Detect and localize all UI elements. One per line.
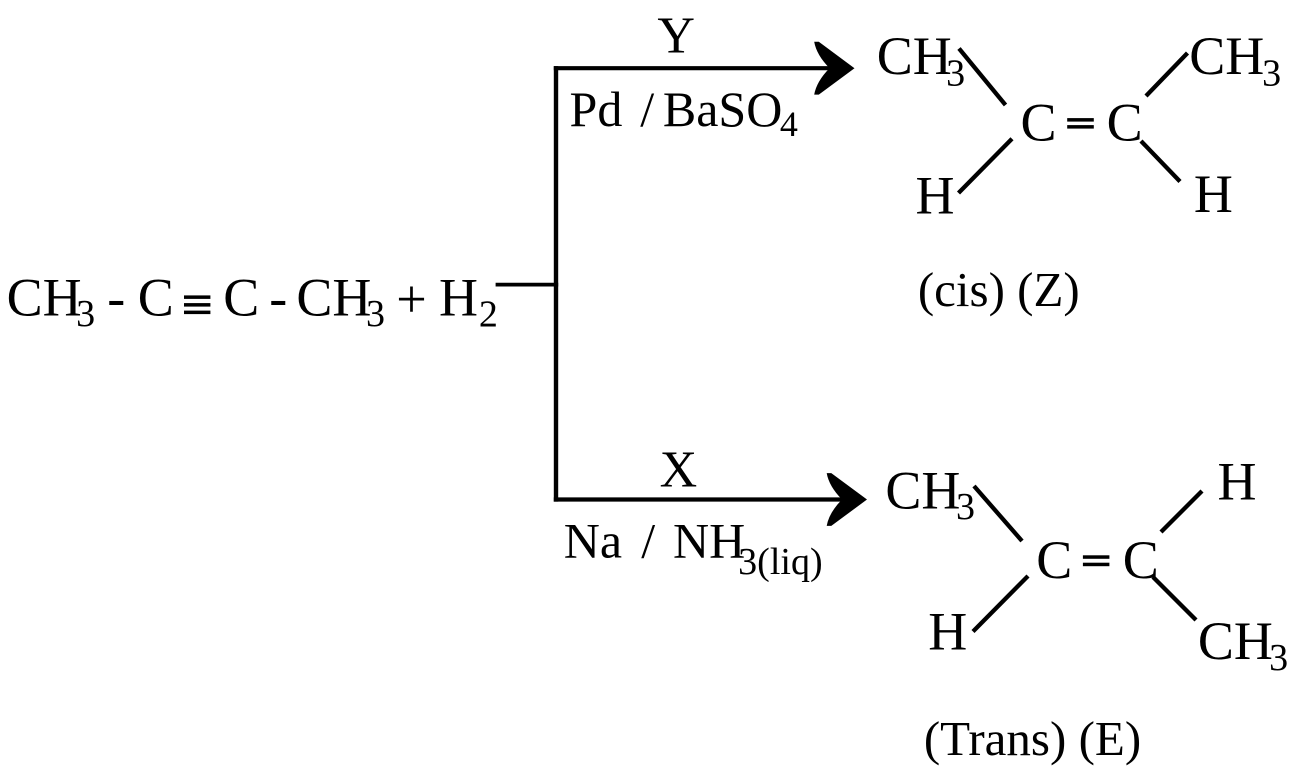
reactant triple bond (three bars) (184, 295, 210, 314)
cis bond H to C (lower left) (959, 139, 1013, 193)
trans bond C to CH3 (lower right) (1153, 577, 1196, 620)
arrow Y head (top) (814, 42, 854, 95)
svg-text:Pd: Pd (570, 81, 623, 137)
svg-text:4: 4 (780, 104, 798, 144)
svg-text:(Trans) (E): (Trans) (E) (924, 711, 1141, 766)
svg-text:H: H (1218, 452, 1257, 512)
svg-text:(cis) (Z): (cis) (Z) (918, 262, 1080, 317)
svg-text:H: H (439, 267, 478, 327)
trans double bond (two bars) (1083, 555, 1110, 566)
arrow X shaft (bottom) (554, 497, 843, 501)
svg-text:C: C (223, 267, 259, 327)
svg-text:/: / (640, 81, 654, 137)
svg-text:C: C (1123, 530, 1159, 590)
svg-text:Na: Na (564, 513, 622, 569)
cis bond CH3 to C (upper left) (959, 49, 1006, 106)
svg-text:C: C (138, 267, 174, 327)
arrow Y shaft (top) (554, 66, 831, 70)
svg-text:H: H (1194, 164, 1233, 224)
cis bond C to CH3 (upper right) (1146, 53, 1188, 96)
cis double bond (two bars) (1067, 118, 1094, 129)
svg-text:CH: CH (885, 461, 960, 521)
svg-text:CH: CH (1198, 611, 1273, 671)
svg-text:3(liq): 3(liq) (738, 541, 822, 583)
svg-text:CH: CH (1189, 26, 1264, 86)
svg-text:X: X (660, 442, 698, 499)
svg-text:CH: CH (7, 267, 82, 327)
svg-text:3: 3 (76, 293, 95, 335)
wire: connector from H2 to branch (496, 283, 559, 287)
svg-text:NH: NH (673, 513, 745, 569)
svg-text:CH: CH (296, 267, 371, 327)
svg-text:C: C (1036, 530, 1072, 590)
svg-text:/: / (641, 513, 655, 569)
svg-text:3: 3 (1262, 52, 1281, 94)
cis bond C to H (lower right) (1141, 141, 1180, 182)
svg-text:CH: CH (877, 26, 952, 86)
trans bond H to C (lower left) (973, 576, 1028, 632)
wire: vertical branch line (554, 66, 558, 502)
svg-text:H: H (915, 166, 954, 226)
svg-text:C: C (1107, 93, 1143, 153)
svg-text:C: C (1020, 93, 1056, 153)
svg-text:BaSO: BaSO (663, 81, 782, 137)
arrow X head (bottom) (827, 473, 867, 526)
svg-text:3: 3 (366, 293, 385, 335)
trans bond C to H (upper right) (1161, 491, 1202, 532)
svg-text:-: - (269, 267, 287, 327)
trans bond CH3 to C (upper left) (974, 486, 1022, 541)
svg-text:3: 3 (1269, 637, 1288, 679)
svg-text:2: 2 (479, 293, 498, 335)
svg-text:Y: Y (657, 8, 695, 65)
svg-text:-: - (107, 267, 125, 327)
svg-text:3: 3 (946, 52, 965, 94)
svg-text:3: 3 (956, 486, 975, 528)
svg-text:+: + (396, 269, 426, 329)
svg-text:H: H (928, 602, 967, 662)
